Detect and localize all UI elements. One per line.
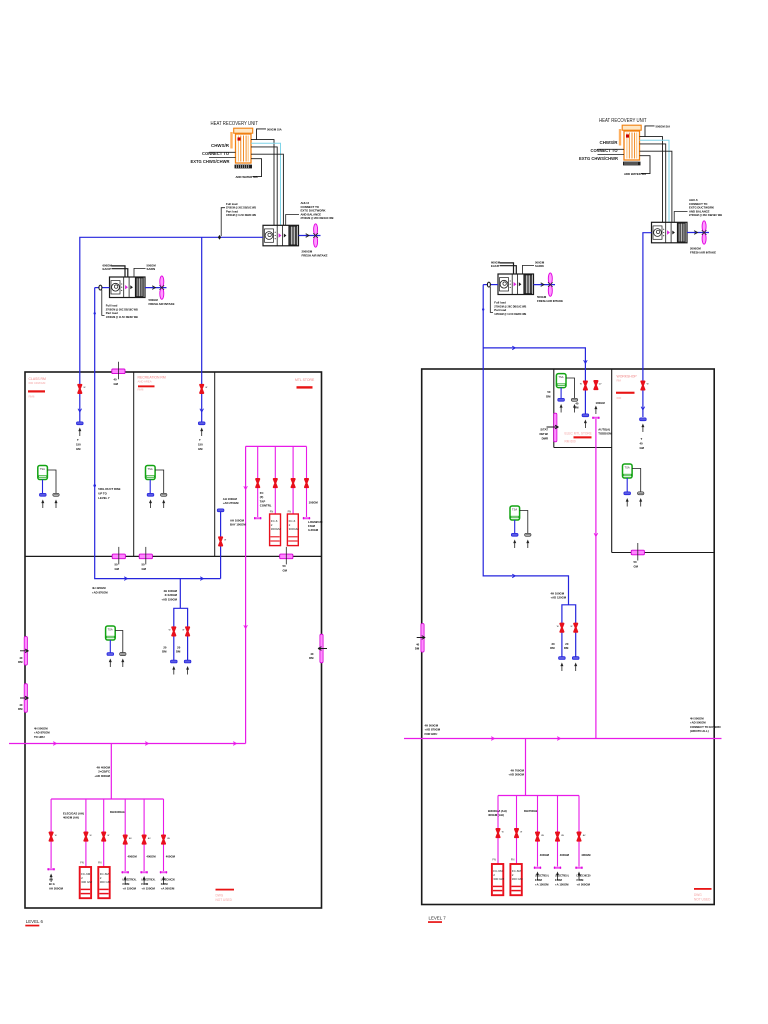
pipe thermostat room2 drop (149, 480, 151, 494)
label room B underline (616, 392, 635, 394)
svg-text:CHWS/R: CHWS/R (211, 143, 229, 148)
svg-text:av: av (541, 834, 544, 837)
svg-text:w: w (571, 625, 573, 628)
svg-text:w: w (84, 386, 86, 389)
damper room A wall (554, 413, 557, 442)
svg-text:DH/1000AH: DH/1000AH (110, 810, 125, 814)
arrow thermostat room1 (41, 500, 44, 509)
arrow room B end (641, 424, 644, 433)
valve dist R2 (515, 829, 518, 837)
svg-text:DM W/: DM W/ (539, 432, 548, 436)
svg-text:2700GM @ 26C DB/19C WB: 2700GM @ 26C DB/19C WB (301, 216, 334, 220)
svg-text:RM 600: RM 600 (565, 440, 576, 444)
svg-text:T: T (199, 438, 201, 442)
chevron riser R (594, 533, 598, 536)
arrow thermostat B aux (639, 498, 642, 507)
svg-text:DM: DM (550, 646, 555, 650)
pipe thermostat corridor drop (109, 640, 111, 653)
pipe fcu U-branch (174, 608, 188, 660)
floor outline level 7 (422, 369, 715, 905)
fan coil FC-2 (287, 514, 299, 546)
chevron main R2 (557, 737, 560, 741)
label room A underline (574, 436, 592, 438)
arrow damper west 1 (20, 649, 29, 653)
damper top wall (112, 362, 125, 380)
svg-text:FN: FN (288, 510, 292, 514)
pipe room A branch (483, 348, 585, 414)
valve dist drop2 (84, 833, 87, 841)
pipe room2 drop (201, 237, 203, 422)
svg-text:400GM: 400GM (128, 855, 138, 859)
arrow thermostat room2 (149, 500, 152, 509)
thermostat corridor (106, 626, 116, 640)
svg-text:F/RM: F/RM (535, 878, 543, 882)
svg-text:DM: DM (162, 650, 167, 654)
svg-text:40: 40 (640, 442, 644, 446)
wall room A left (553, 369, 555, 448)
svg-text:600 CFM/GM: 600 CFM/GM (29, 381, 46, 385)
arrow thermostat corridor (109, 659, 112, 668)
node header tap diamond (218, 235, 221, 240)
svg-text:av: av (129, 837, 132, 840)
pipe AHU-2R run (483, 285, 568, 605)
pipe thermostat A drop (560, 388, 562, 398)
pipe-end U-right (184, 660, 191, 663)
chevron room1 drop (78, 409, 82, 412)
valve dist R4 (556, 833, 559, 841)
svg-text:CONTRL: CONTRL (260, 504, 272, 508)
arrow room1 end (78, 428, 81, 437)
pipe distribution drop (110, 744, 112, 800)
svg-text:w: w (224, 539, 226, 542)
chevron corridor 2 (200, 577, 203, 581)
arrow thermostat corridor R (513, 540, 516, 549)
svg-text:FRESH AIR INTAKE: FRESH AIR INTAKE (149, 302, 175, 306)
valve dist drop4 (124, 836, 127, 844)
node corridor blue dot (94, 312, 96, 314)
pipe-end dist drop6 (160, 871, 167, 873)
arrow room A end (584, 420, 587, 429)
svg-text:100GM: 100GM (309, 500, 319, 504)
thermostat room1 (38, 466, 48, 480)
svg-text:FN: FN (98, 861, 102, 865)
svg-text:av: av (583, 834, 586, 837)
svg-text:F/RM: F/RM (141, 882, 149, 886)
svg-text:+A 500GM: +A 500GM (161, 887, 175, 891)
wire AHU-1 note bracket (286, 215, 299, 226)
wall room B bottom (612, 552, 715, 554)
arrow thermostat corridor R aux (526, 540, 529, 549)
valve room3 blue (219, 537, 222, 545)
svg-text:+AD 270GM: +AD 270GM (223, 501, 239, 505)
pipe fcu U-branch R (562, 605, 576, 657)
valve manifold drop4 (305, 479, 308, 487)
pipe HRU supply 2 (251, 147, 277, 225)
pipe-end thermostat corridor R aux (525, 533, 531, 536)
arrow dist drop5 (143, 876, 146, 885)
svg-text:RM6: RM6 (138, 387, 144, 391)
svg-text:400GM: 400GM (540, 853, 550, 857)
pipe-end room3 blue (217, 509, 224, 512)
svg-text:+AD 870GM: +AD 870GM (92, 590, 108, 594)
fan F-1 (313, 224, 318, 247)
pipe-end thermostat B aux (638, 492, 644, 495)
svg-text:DM: DM (309, 656, 314, 660)
svg-text:RM: RM (617, 379, 622, 383)
svg-text:L/ELECTRICAL: L/ELECTRICAL (555, 874, 569, 878)
svg-text:HEAT RECOVERY UNIT: HEAT RECOVERY UNIT (211, 121, 259, 127)
svg-text:400GM: 400GM (166, 855, 176, 859)
damper east wall (320, 634, 323, 663)
pipe-end drop4 (303, 517, 310, 519)
chevron main 3 (233, 742, 236, 746)
svg-text:B/ G: B/ G (49, 882, 55, 886)
wire thermostat corridor aux (115, 631, 123, 653)
pipe CHW riser room3 (245, 446, 247, 743)
thermostat corridor R (510, 506, 520, 520)
node AHU-2R dot (482, 308, 484, 310)
svg-text:EXTG CHWS/CHWR: EXTG CHWS/CHWR (191, 159, 230, 164)
valve manifold drop1 (256, 479, 259, 487)
svg-text:400GM: 400GM (581, 853, 591, 857)
valve room A (584, 381, 587, 389)
svg-text:400GM: 400GM (560, 853, 570, 857)
damper room B partition (631, 543, 644, 561)
valve dist drop5 (143, 836, 146, 844)
pipe-end thermostat A aux (571, 398, 577, 401)
label room2 underline (138, 385, 155, 387)
pipe-end thermostat room2 aux (161, 493, 167, 496)
pipe thermostat corridor R drop (514, 520, 516, 533)
pipe distribution manifold (51, 798, 163, 800)
pipe dist R drop 1 (497, 796, 499, 865)
valve manifold drop3 (292, 479, 295, 487)
pipe thermostat room1 drop (42, 480, 44, 494)
pipe-end thermostat corridor aux (120, 653, 126, 656)
chevron main 1 (53, 742, 56, 746)
damper west wall R (421, 624, 424, 653)
pipe AHU-1 header (80, 237, 263, 422)
svg-text:w: w (182, 629, 184, 632)
svg-text:T: T (641, 437, 643, 441)
note red line left panel (216, 889, 235, 891)
arrow damper east (318, 647, 327, 651)
svg-text:GM: GM (198, 447, 203, 451)
pipe condenser main (9, 743, 246, 745)
svg-text:ELEC MTL STORE: ELEC MTL STORE (565, 432, 592, 436)
pipe manifold drop 4 (306, 446, 308, 517)
svg-text:F/RM: F/RM (123, 882, 131, 886)
svg-text:+AD 300GM: +AD 300GM (94, 774, 110, 778)
arrow thermostat room1 aux (55, 500, 58, 509)
pipe distribution drop R (525, 739, 527, 796)
pipe manifold drop 2 (274, 446, 276, 514)
fan coil FC-B1 (80, 867, 93, 898)
note red line right panel (694, 888, 712, 890)
arrow dist R4 (556, 872, 559, 881)
air handling unit AHU-2 (110, 277, 146, 298)
wall corridor partition (25, 555, 322, 557)
arrow thermostat room2 aux (162, 500, 165, 509)
svg-text:DM: DM (415, 647, 420, 651)
wall room B left (611, 369, 613, 553)
svg-text:DM: DM (18, 660, 23, 664)
svg-text:GM: GM (283, 568, 288, 572)
floor outline level 6 (25, 372, 322, 908)
pipe-end thermostat A (558, 398, 565, 401)
svg-text:F/RM: F/RM (577, 878, 585, 882)
svg-text:600: 600 (617, 396, 622, 400)
pipe-end U-right R (572, 657, 579, 660)
svg-text:1350GM @ 11.5C DB/8C WB: 1350GM @ 11.5C DB/8C WB (106, 315, 138, 319)
pipe dist drop 2 (85, 799, 87, 867)
svg-text:av: av (561, 834, 564, 837)
fan coil FC-R2 (510, 864, 523, 895)
svg-text:DM: DM (176, 650, 181, 654)
svg-text:F/RM: F/RM (161, 882, 169, 886)
valve room B drop (641, 381, 644, 389)
arrow thermostat A aux (573, 404, 576, 413)
svg-text:LEVEL 6: LEVEL 6 (26, 919, 44, 924)
wire thermostat room1 aux (47, 470, 56, 493)
svg-text:S/TAT: S/TAT (540, 428, 548, 432)
arrow damper west 2 (20, 696, 29, 700)
pipe manifold drop 3 (292, 446, 294, 514)
svg-text:L/ELECTRICAL: L/ELECTRICAL (141, 878, 155, 882)
pipe dist R drop 3 (537, 796, 539, 867)
pipe-end thermostat corridor R (511, 533, 518, 536)
damper partition C (280, 547, 293, 565)
chevron branch h (512, 346, 515, 350)
valve U-right R (574, 624, 577, 632)
svg-text:+A 150GM: +A 150GM (535, 883, 549, 887)
svg-text:T: T (77, 438, 79, 442)
arrow dist R3 (536, 872, 539, 881)
svg-text:+AD 120GM: +AD 120GM (551, 596, 567, 600)
svg-text:100GM: 100GM (596, 401, 606, 405)
pipe corridor main blue (95, 288, 221, 579)
svg-text:F/RM: F/RM (555, 878, 563, 882)
svg-text:w: w (647, 383, 649, 386)
pipe AHU-2 inlet stub (95, 287, 110, 289)
arrow thermostat A (560, 404, 563, 413)
pipe-end dist drop1 (47, 868, 54, 870)
svg-text:DWG: DWG (216, 894, 224, 898)
svg-text:500L DUCT RISE: 500L DUCT RISE (98, 487, 120, 491)
arrow U-right (186, 666, 189, 675)
svg-text:400GM: 400GM (146, 855, 156, 859)
pipe-end room B (640, 418, 647, 421)
pipe CHW manifold room3 (246, 445, 307, 447)
svg-text:BAY 100GM: BAY 100GM (230, 523, 246, 527)
svg-text:w: w (205, 386, 207, 389)
wall partition 1 (133, 372, 135, 556)
svg-text:GM: GM (640, 446, 645, 450)
pipe distribution manifold R (498, 795, 579, 797)
pipe dist drop 5 (143, 799, 145, 871)
pipe manifold drop 1 (257, 446, 259, 517)
svg-text:+A 150GM: +A 150GM (141, 887, 155, 891)
svg-text:av: av (167, 837, 170, 840)
pipe AHU-1 to fan (299, 235, 321, 237)
pipe dist R drop 5 (578, 796, 580, 867)
svg-text:AH: AH (49, 878, 53, 882)
svg-text:w: w (169, 629, 171, 632)
svg-text:GM: GM (76, 447, 81, 451)
damper west wall 1 (24, 637, 27, 666)
chevron main R1 (491, 737, 494, 741)
arrow room2 end (200, 428, 203, 437)
pipe condenser main R (404, 738, 722, 740)
pipe-end thermostat room2 (147, 493, 154, 496)
arrow U-left (172, 666, 175, 675)
svg-text:L/MECH/C30: L/MECH/C30 (161, 878, 175, 882)
svg-text:w: w (520, 831, 522, 834)
svg-text:LEVEL 7: LEVEL 7 (98, 496, 110, 500)
valve U-left R (560, 624, 563, 632)
thermostat room B (623, 464, 633, 478)
svg-text:cv: cv (599, 383, 602, 386)
svg-text:+A 150GM: +A 150GM (555, 883, 569, 887)
svg-text:+AD 150GM: +AD 150GM (161, 597, 177, 601)
pipe-end dist drop5 (140, 871, 147, 873)
arrow dist drop4 (124, 876, 127, 885)
wire AHU-2 duct left leader (112, 266, 126, 277)
pipe-end thermostat B (624, 492, 631, 495)
damper west wall 2 (24, 684, 27, 713)
svg-text:CONNECT TO: CONNECT TO (202, 151, 230, 156)
svg-text:400GM (AH): 400GM (AH) (63, 816, 79, 820)
pipe-end U-left (171, 660, 178, 663)
svg-text:av: av (148, 837, 151, 840)
svg-text:UP TO: UP TO (98, 492, 107, 496)
valve dist R3 (536, 833, 539, 841)
svg-text:(HRU/TO ALL): (HRU/TO ALL) (690, 729, 709, 733)
pipe HRU supply 3 (251, 154, 283, 225)
pipe-end thermostat room1 (40, 493, 47, 496)
wire AHU-2 note leader (102, 290, 105, 316)
pipe AHU-1R drop (643, 233, 652, 417)
arrow damper room A (547, 425, 559, 429)
label LEVEL 6 underline (25, 925, 39, 927)
svg-text:L/ELECTRICAL: L/ELECTRICAL (535, 874, 549, 878)
junction chevron on AHU-2 fan pipe (152, 286, 155, 290)
node AHU-2 tap (99, 285, 102, 290)
wire thermostat A aux (566, 378, 575, 398)
arrow spare (594, 406, 597, 415)
chevron main 2 (145, 742, 148, 746)
svg-text:FRESH AIR INTAKE: FRESH AIR INTAKE (302, 253, 328, 257)
svg-text:AH 200GM: AH 200GM (49, 887, 64, 891)
wire add-water stub (251, 159, 262, 177)
svg-text:DH/700GM: DH/700GM (524, 809, 539, 813)
arrow dist R5 (578, 872, 581, 881)
svg-text:RM6: RM6 (29, 395, 35, 399)
svg-text:L/ELECTRICAL: L/ELECTRICAL (123, 878, 137, 882)
svg-text:AND AREA: AND AREA (138, 380, 152, 384)
svg-text:w: w (107, 834, 109, 837)
chevron room2 drop (200, 409, 204, 412)
svg-text:MTL STORE: MTL STORE (295, 378, 315, 382)
fan F-2 (160, 276, 165, 299)
chevron corridor 1 (124, 577, 127, 581)
pipe-end room1 (77, 422, 84, 425)
svg-text:TODD/GM: TODD/GM (598, 432, 612, 436)
svg-text:LEVEL 7: LEVEL 7 (429, 916, 447, 921)
chevron riser 1 (244, 486, 248, 489)
valve dist R1 (496, 829, 499, 837)
svg-text:3-30GM: 3-30GM (308, 528, 319, 532)
chevron corridor R (512, 574, 515, 578)
valve dist drop6 (162, 836, 165, 844)
svg-text:w: w (502, 831, 504, 834)
label room3 underline (297, 386, 313, 388)
chevron room B drop (641, 407, 645, 410)
svg-text:150: 150 (76, 443, 81, 447)
svg-text:TO HRU: TO HRU (34, 735, 45, 739)
chevron riser 2 (244, 625, 248, 628)
svg-text:FN: FN (80, 861, 84, 865)
valve U-branch right (186, 627, 189, 635)
damper partition A (112, 547, 125, 565)
junction chevron on fan pipe (306, 234, 309, 238)
svg-text:+AD 300GM: +AD 300GM (508, 773, 524, 777)
pipe-end thermostat room1 aux (53, 493, 59, 496)
fan coil FC-1 (270, 514, 282, 546)
arrow damper west R (417, 636, 426, 640)
wire thermostat corridor R aux (520, 511, 528, 534)
svg-text:FN: FN (270, 510, 274, 514)
svg-text:FN: FN (511, 858, 515, 862)
svg-text:DM: DM (564, 646, 569, 650)
pipe-end dist R5 (575, 867, 582, 869)
svg-text:NOT USED: NOT USED (216, 898, 233, 902)
pipe room3 blue riser (220, 512, 222, 579)
svg-text:DM: DM (546, 395, 551, 399)
svg-text:FN: FN (492, 858, 496, 862)
pipe-end room A (582, 414, 589, 417)
chevron branch v (584, 360, 588, 363)
pipe-end thermostat corridor (107, 653, 114, 656)
svg-text:GM: GM (634, 564, 639, 568)
fan coil FC-B2 (98, 867, 111, 898)
svg-text:w: w (580, 383, 582, 386)
pipe dist drop 6 (163, 799, 165, 871)
pipe dist drop 1 (50, 799, 52, 868)
heat recovery unit HRU-1 (232, 128, 253, 168)
arrow U-right R (574, 663, 577, 672)
pipe dist drop 3 (103, 799, 105, 867)
svg-text:DWG: DWG (694, 893, 702, 897)
svg-text:EA/UP: EA/UP (103, 267, 112, 271)
pipe thermostat B drop (626, 478, 628, 492)
svg-text:FOR HRU: FOR HRU (425, 732, 438, 736)
valve room1 drop (78, 385, 81, 393)
label LEVEL 7 underline (428, 921, 442, 923)
pipe corridor tee (179, 579, 181, 609)
valve room A spare (594, 381, 597, 389)
wire exhaust label leader (257, 129, 267, 140)
svg-text:w: w (90, 834, 92, 837)
wire header note leader (221, 208, 225, 236)
pipe-end dist drop4 (122, 871, 129, 873)
node corridor blue dot 2 (93, 484, 96, 487)
valve dist drop3 (102, 833, 105, 841)
valve U-branch left (172, 627, 175, 635)
svg-text:1350GM @ 11.5C DB/8C WB: 1350GM @ 11.5C DB/8C WB (226, 213, 256, 217)
svg-text:+A 150GM: +A 150GM (123, 887, 137, 891)
wire CHWS stub 1 (209, 151, 236, 153)
